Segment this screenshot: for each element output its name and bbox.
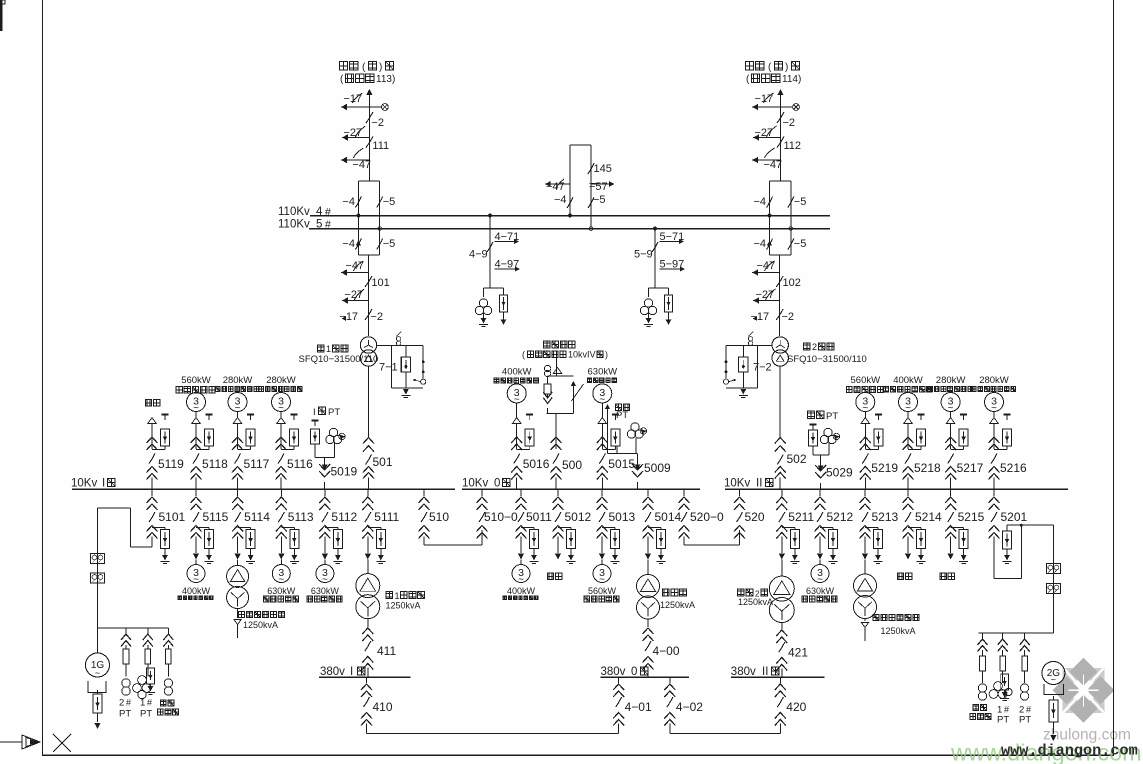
svg-text:−47: −47 xyxy=(345,260,364,272)
svg-text:400kW: 400kW xyxy=(502,366,532,377)
svg-text:4: 4 xyxy=(316,206,323,218)
svg-text:510: 510 xyxy=(429,510,449,524)
svg-text:−47: −47 xyxy=(546,181,565,193)
svg-text:10kvIV: 10kvIV xyxy=(568,350,596,360)
svg-text:1250kvA: 1250kvA xyxy=(386,601,421,611)
svg-text:−4: −4 xyxy=(342,238,355,250)
svg-text:5015: 5015 xyxy=(608,457,635,471)
svg-text:~: ~ xyxy=(193,575,199,586)
svg-text:5014: 5014 xyxy=(655,510,682,524)
svg-text:5214: 5214 xyxy=(915,510,942,524)
svg-text:280kW: 280kW xyxy=(266,375,296,386)
svg-text:10Kv: 10Kv xyxy=(71,478,97,490)
svg-text:−17: −17 xyxy=(755,93,774,105)
svg-text:−17: −17 xyxy=(339,311,358,323)
svg-text:~: ~ xyxy=(518,575,524,586)
svg-text:PT: PT xyxy=(826,411,838,422)
svg-text:−5: −5 xyxy=(794,196,807,208)
svg-text:−4: −4 xyxy=(754,238,767,250)
svg-text:PT: PT xyxy=(140,709,152,720)
svg-text:5219: 5219 xyxy=(871,461,898,475)
svg-text:−5: −5 xyxy=(383,238,396,250)
svg-text:560kW: 560kW xyxy=(588,586,617,596)
svg-text:5113: 5113 xyxy=(288,510,314,524)
svg-text:(: ( xyxy=(522,350,525,360)
svg-text:PT: PT xyxy=(616,410,628,421)
svg-text:#: # xyxy=(325,219,331,231)
svg-text:280kW: 280kW xyxy=(223,375,253,386)
svg-text:5218: 5218 xyxy=(914,461,941,475)
svg-text:10Kv: 10Kv xyxy=(462,478,488,490)
svg-text:5011: 5011 xyxy=(526,510,552,524)
svg-text:II: II xyxy=(756,478,762,490)
svg-text:I: I xyxy=(102,478,105,490)
svg-text:280kW: 280kW xyxy=(936,375,966,386)
svg-text:~: ~ xyxy=(817,575,823,586)
svg-text:2: 2 xyxy=(812,342,817,352)
svg-text:I: I xyxy=(313,407,316,418)
svg-text:510−0: 510−0 xyxy=(484,510,518,524)
svg-text:#: # xyxy=(126,698,131,708)
svg-text:5117: 5117 xyxy=(244,457,270,471)
svg-text:SFQ10−31500/110: SFQ10−31500/110 xyxy=(299,354,379,365)
svg-text:~: ~ xyxy=(95,668,100,678)
svg-text:1: 1 xyxy=(395,591,400,601)
svg-text:4−01: 4−01 xyxy=(625,700,652,714)
svg-text:5213: 5213 xyxy=(872,510,899,524)
svg-text:630kW: 630kW xyxy=(311,586,340,596)
svg-text:5012: 5012 xyxy=(565,510,592,524)
svg-text:380v: 380v xyxy=(731,666,756,678)
svg-text:520: 520 xyxy=(745,510,765,524)
svg-text:7−2: 7−2 xyxy=(753,362,772,374)
svg-text:102: 102 xyxy=(783,277,801,289)
svg-text:4−00: 4−00 xyxy=(653,644,680,658)
svg-text:101: 101 xyxy=(371,277,389,289)
svg-text:500: 500 xyxy=(562,458,582,472)
svg-text:5019: 5019 xyxy=(331,465,358,479)
svg-text:−47: −47 xyxy=(757,260,776,272)
svg-text:421: 421 xyxy=(788,646,808,660)
svg-text:5009: 5009 xyxy=(644,461,671,475)
svg-text:#: # xyxy=(147,698,152,708)
svg-text:111: 111 xyxy=(372,140,389,152)
svg-text:4−02: 4−02 xyxy=(676,700,703,714)
svg-text:10Kv: 10Kv xyxy=(724,478,750,490)
svg-text:630kW: 630kW xyxy=(806,586,835,596)
svg-text:PT: PT xyxy=(1019,715,1031,726)
svg-text:−5: −5 xyxy=(794,238,807,250)
svg-text:II: II xyxy=(762,666,768,678)
svg-text:5111: 5111 xyxy=(374,510,399,524)
svg-text:): ) xyxy=(379,62,382,73)
svg-text:−5: −5 xyxy=(383,196,396,208)
svg-text:501: 501 xyxy=(373,455,393,469)
svg-text:5216: 5216 xyxy=(1000,461,1027,475)
svg-text:#: # xyxy=(325,206,331,218)
svg-text:#: # xyxy=(1026,705,1031,715)
svg-text:5118: 5118 xyxy=(202,457,228,471)
svg-text:5: 5 xyxy=(316,219,322,231)
svg-text:SFQ10−31500/110: SFQ10−31500/110 xyxy=(787,354,867,365)
svg-text:112: 112 xyxy=(784,140,802,152)
svg-text:280kW: 280kW xyxy=(979,375,1009,386)
svg-text:I: I xyxy=(350,666,353,678)
svg-text:5201: 5201 xyxy=(1001,510,1028,524)
svg-text:1250kvA: 1250kvA xyxy=(660,600,695,610)
svg-text:~: ~ xyxy=(599,575,605,586)
svg-text:0: 0 xyxy=(631,666,637,678)
svg-text:−2: −2 xyxy=(370,311,383,323)
svg-text:#: # xyxy=(1004,705,1009,715)
svg-text:−2: −2 xyxy=(783,117,796,129)
svg-text:−2: −2 xyxy=(371,117,384,129)
svg-text:7−1: 7−1 xyxy=(379,362,398,374)
svg-text:PT: PT xyxy=(997,715,1009,726)
svg-text:): ) xyxy=(785,62,788,73)
svg-text:400kW: 400kW xyxy=(507,586,536,596)
svg-text:−17: −17 xyxy=(751,311,770,323)
svg-text:411: 411 xyxy=(377,644,396,658)
svg-text:−2: −2 xyxy=(782,311,795,323)
svg-text:5013: 5013 xyxy=(609,510,636,524)
svg-text:www.diangon.com: www.diangon.com xyxy=(1001,742,1138,760)
svg-text:1: 1 xyxy=(326,344,331,354)
svg-text:5029: 5029 xyxy=(826,466,853,480)
svg-text:630kW: 630kW xyxy=(267,586,296,596)
svg-text:380v: 380v xyxy=(320,666,345,678)
svg-text:): ) xyxy=(605,350,608,360)
svg-text:1: 1 xyxy=(140,698,145,709)
svg-text:560kW: 560kW xyxy=(851,375,881,386)
svg-text:−4: −4 xyxy=(342,196,355,208)
svg-text:PT: PT xyxy=(119,709,131,720)
svg-text:145: 145 xyxy=(594,163,612,175)
svg-text:4−9: 4−9 xyxy=(469,249,488,261)
svg-text:~: ~ xyxy=(1051,675,1056,685)
svg-text:5115: 5115 xyxy=(203,510,229,524)
svg-text:110Kv: 110Kv xyxy=(278,219,310,231)
svg-text:110Kv: 110Kv xyxy=(278,206,310,218)
svg-text:113): 113) xyxy=(376,74,395,85)
svg-text:5116: 5116 xyxy=(287,457,313,471)
svg-text:−5: −5 xyxy=(593,194,606,206)
svg-text:400kW: 400kW xyxy=(893,375,923,386)
svg-text:400kW: 400kW xyxy=(182,586,211,596)
svg-text:5119: 5119 xyxy=(158,457,184,471)
svg-text:630kW: 630kW xyxy=(588,366,618,377)
svg-text:−47: −47 xyxy=(352,159,371,171)
svg-text:1250kvA: 1250kvA xyxy=(881,626,916,636)
svg-text:1250kvA: 1250kvA xyxy=(738,597,773,607)
svg-text:5114: 5114 xyxy=(244,510,270,524)
svg-text:5217: 5217 xyxy=(957,461,984,475)
svg-text:−17: −17 xyxy=(343,93,362,105)
svg-text:−4: −4 xyxy=(754,196,767,208)
svg-text:5101: 5101 xyxy=(159,510,186,524)
svg-text:420: 420 xyxy=(786,700,806,714)
svg-text:410: 410 xyxy=(373,700,393,714)
svg-text:380v: 380v xyxy=(601,666,626,678)
svg-text:5211: 5211 xyxy=(788,510,814,524)
svg-text:PT: PT xyxy=(328,407,340,418)
svg-text:0: 0 xyxy=(494,478,500,490)
svg-text:−47: −47 xyxy=(764,159,783,171)
svg-text:~: ~ xyxy=(322,575,328,586)
svg-text:5112: 5112 xyxy=(331,510,357,524)
svg-text:560kW: 560kW xyxy=(181,375,211,386)
svg-text:5016: 5016 xyxy=(523,457,550,471)
svg-text:~: ~ xyxy=(278,575,284,586)
svg-text:5212: 5212 xyxy=(827,510,854,524)
svg-text:502: 502 xyxy=(787,452,807,466)
svg-text:114): 114) xyxy=(782,74,801,85)
svg-text:2: 2 xyxy=(119,698,124,709)
svg-text:1250kvA: 1250kvA xyxy=(243,620,278,630)
svg-text:520−0: 520−0 xyxy=(690,510,724,524)
svg-text:5−9: 5−9 xyxy=(634,249,653,261)
svg-text:5215: 5215 xyxy=(958,510,985,524)
svg-text:−4: −4 xyxy=(554,194,567,206)
